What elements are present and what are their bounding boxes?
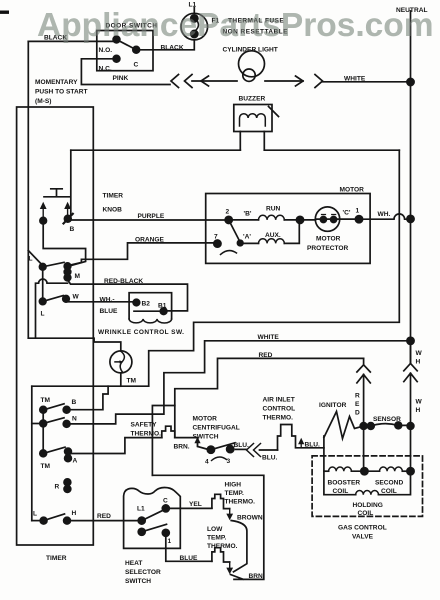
svg-text:7: 7 — [214, 234, 218, 241]
motor terminal 2 — [225, 216, 232, 223]
svg-text:WH.: WH. — [378, 211, 391, 218]
wire rail left drop to push-to-start contact — [68, 150, 71, 218]
run winding — [229, 219, 259, 221]
svg-text:CYLINDER LIGHT: CYLINDER LIGHT — [223, 47, 278, 54]
svg-text:'B': 'B' — [244, 211, 252, 218]
arrow blu — [300, 442, 302, 448]
wire L upper to lower — [42, 267, 44, 302]
wire PINK from N.C. down and right to connector — [81, 59, 170, 85]
svg-text:THERMO.: THERMO. — [263, 415, 294, 422]
svg-text:R: R — [55, 484, 60, 491]
wire RED/WH columns into valve — [364, 426, 411, 471]
wire to L contact — [32, 520, 44, 522]
svg-text:TM: TM — [41, 397, 51, 404]
svg-text:HOLDING: HOLDING — [353, 502, 383, 509]
wire RED staircase — [175, 358, 364, 437]
svg-text:'A': 'A' — [243, 234, 251, 241]
svg-text:SELECTOR: SELECTOR — [125, 569, 161, 576]
thermal fuse F1 — [181, 13, 208, 40]
svg-text:W: W — [416, 350, 423, 357]
svg-text:W: W — [416, 399, 423, 406]
wire left vertical black down to timer area — [27, 41, 29, 338]
connector RED lower arrow — [357, 375, 370, 427]
wire ORANGE to motor terminal 7 — [69, 243, 218, 266]
thermostat TM circle — [110, 351, 132, 373]
svg-text:H: H — [72, 510, 77, 517]
wire BLU row: centrifugal to valve — [236, 448, 247, 450]
wire knob-L down to L-M contact — [43, 221, 85, 266]
wire TM bottom to rail — [120, 373, 122, 386]
svg-text:COIL: COIL — [381, 488, 397, 495]
wire rail y386 — [32, 385, 149, 387]
svg-text:TM: TM — [127, 378, 137, 385]
svg-text:WH.-: WH.- — [100, 297, 115, 304]
svg-text:A: A — [73, 458, 78, 465]
contact W — [63, 296, 70, 303]
motor box — [206, 194, 370, 264]
svg-text:ORANGE: ORANGE — [135, 237, 165, 244]
wire C to fuse riser — [136, 40, 194, 50]
svg-text:BLUE: BLUE — [180, 555, 199, 562]
svg-text:THERMO.: THERMO. — [131, 431, 162, 438]
wire ignitor-valve riser — [323, 436, 325, 471]
svg-text:AUX.: AUX. — [265, 232, 281, 239]
wire N to WHITE staircase — [67, 341, 411, 424]
svg-text:TEMP.: TEMP. — [225, 490, 244, 497]
svg-text:COIL: COIL — [358, 510, 374, 517]
svg-text:L: L — [41, 311, 45, 318]
booster coil — [324, 470, 329, 472]
door switch DS — [97, 31, 153, 71]
timer contact L-H — [40, 517, 47, 524]
svg-text:IGNITOR: IGNITOR — [319, 402, 347, 409]
cam arc under blade — [221, 251, 237, 255]
svg-text:BRN.: BRN. — [249, 573, 265, 580]
heat selector switch HS — [124, 488, 181, 549]
svg-text:MOMENTARY: MOMENTARY — [35, 79, 78, 86]
svg-text:CONTROL: CONTROL — [263, 406, 296, 413]
svg-text:4: 4 — [205, 459, 209, 466]
wire YEL to high temp thermostat — [166, 507, 212, 509]
svg-text:BROWN: BROWN — [237, 515, 263, 522]
edge artifact top-left — [0, 11, 9, 14]
svg-text:AIR INLET: AIR INLET — [263, 397, 295, 404]
svg-text:H: H — [416, 407, 421, 414]
connector chevron right — [315, 75, 323, 88]
svg-text:BRN.: BRN. — [174, 444, 190, 451]
wire B to power rail — [67, 386, 109, 410]
svg-text:VALVE: VALVE — [352, 534, 374, 541]
holding coil — [324, 471, 356, 495]
svg-text:WHITE: WHITE — [344, 76, 366, 83]
buzzer BZ — [234, 105, 279, 132]
wire high-temp feed — [152, 475, 263, 579]
svg-text:C: C — [163, 498, 168, 505]
svg-text:(M-S): (M-S) — [35, 98, 51, 105]
svg-text:SAFETY: SAFETY — [131, 422, 158, 429]
svg-text:BLUE: BLUE — [100, 308, 119, 315]
wrinkle control switch WCS — [129, 293, 172, 323]
wire rail down right side — [149, 150, 400, 386]
contact knob-B — [64, 215, 71, 222]
svg-text:PURPLE: PURPLE — [138, 213, 165, 220]
svg-text:B: B — [70, 226, 75, 233]
svg-text:C: C — [134, 62, 139, 69]
gas control valve dashed box — [312, 456, 422, 517]
wire WHITE to neutral — [323, 81, 411, 83]
svg-text:N.O.: N.O. — [99, 47, 113, 54]
svg-text:THERMO.: THERMO. — [207, 543, 238, 550]
aux winding — [240, 242, 258, 244]
second coil — [380, 467, 403, 471]
svg-text:PROTECTOR: PROTECTOR — [307, 245, 349, 252]
svg-text:HEAT: HEAT — [125, 560, 142, 567]
svg-text:TEMP.: TEMP. — [207, 535, 226, 542]
motor centrifugal switch contacts — [207, 446, 214, 453]
svg-text:RUN: RUN — [266, 206, 281, 213]
contact L lower — [39, 298, 46, 305]
connector WH lower arrow — [404, 373, 417, 426]
svg-text:BLU.: BLU. — [234, 442, 250, 449]
terminal R — [64, 479, 71, 486]
svg-text:N: N — [72, 416, 77, 423]
wire RED-BLACK M to B1 — [68, 280, 188, 311]
connector chevrons pink-white — [171, 75, 192, 88]
push-to-start knob symbol — [40, 189, 71, 219]
timer contact TM-A — [40, 450, 47, 457]
svg-text:RED: RED — [97, 513, 111, 520]
wire branch to TM2 — [32, 423, 43, 425]
svg-text:GAS CONTROL: GAS CONTROL — [338, 525, 387, 532]
svg-text:B1: B1 — [158, 303, 167, 310]
svg-text:HIGH: HIGH — [225, 482, 242, 489]
svg-text:H: H — [416, 359, 421, 366]
svg-text:PINK: PINK — [113, 75, 129, 82]
svg-text:L: L — [29, 256, 33, 263]
connector chevrons blu — [247, 444, 261, 457]
wire NEUTRAL vertical — [410, 11, 412, 363]
wire BLUE to low temp thermostat — [166, 533, 212, 562]
svg-text:L: L — [33, 511, 37, 518]
svg-text:YEL: YEL — [189, 501, 202, 508]
wire M hop left — [36, 279, 68, 338]
svg-text:TM: TM — [41, 463, 51, 470]
svg-text:E: E — [355, 401, 360, 408]
wire WHITE label junction node — [407, 337, 414, 344]
svg-text:WHITE: WHITE — [258, 334, 280, 341]
motor terminal 1 C — [355, 216, 362, 223]
wire arrowed segment right of light — [265, 80, 303, 82]
wire power rail y150 right segment — [264, 149, 399, 151]
svg-text:MOTOR: MOTOR — [316, 236, 341, 243]
timer box outline — [17, 107, 94, 545]
svg-text:2: 2 — [226, 209, 230, 216]
low temp arrow contact — [229, 562, 231, 569]
svg-text:CENTRIFUGAL: CENTRIFUGAL — [193, 425, 240, 432]
svg-text:SWITCH: SWITCH — [125, 578, 151, 585]
svg-text:RED: RED — [259, 352, 273, 359]
cylinder light LT — [239, 51, 265, 82]
svg-text:SECOND: SECOND — [375, 480, 403, 487]
svg-text:3: 3 — [227, 458, 231, 465]
node — [407, 215, 414, 222]
wire white arrowed segment under cylinder light — [192, 80, 237, 82]
svg-text:KNOB: KNOB — [103, 207, 123, 214]
wire BLACK from left to door switch N.O. — [28, 40, 114, 42]
centrifugal blade 2-A — [229, 220, 241, 242]
svg-text:THERMO.: THERMO. — [225, 499, 256, 506]
svg-text:M: M — [75, 273, 81, 280]
safety thermostat bump — [162, 426, 175, 437]
sensor SR — [360, 423, 367, 430]
svg-text:SWITCH: SWITCH — [193, 434, 219, 441]
svg-text:TIMER: TIMER — [46, 555, 67, 562]
svg-text:TIMER: TIMER — [103, 193, 124, 200]
wire rail left vertical to timer contacts — [31, 386, 33, 520]
svg-text:MOTOR: MOTOR — [340, 187, 365, 194]
contact L upper — [39, 264, 46, 271]
svg-text:BLU.: BLU. — [305, 442, 321, 449]
wire RED timer H to heat selector — [67, 520, 142, 522]
motor terminal 7 — [214, 240, 221, 247]
svg-text:B: B — [72, 399, 77, 406]
svg-text:BLACK: BLACK — [161, 45, 184, 52]
wire y338 to timer thermostat — [28, 338, 121, 351]
terminal L1 stub — [193, 8, 195, 14]
node neutral-white junction — [407, 78, 414, 85]
svg-text:R: R — [355, 393, 360, 400]
wire WH to neutral with hop — [359, 214, 411, 219]
svg-text:SENSOR: SENSOR — [373, 416, 401, 423]
high temp arrow contact — [229, 509, 231, 515]
svg-text:L1: L1 — [137, 506, 145, 513]
svg-text:LOW: LOW — [207, 526, 223, 533]
high temp thermostat bump — [212, 494, 230, 508]
svg-text:RED-BLACK: RED-BLACK — [104, 278, 143, 285]
wire power rail y150 left segment — [71, 149, 241, 151]
timer contact N — [40, 420, 47, 427]
svg-text:BUZZER: BUZZER — [239, 96, 266, 103]
svg-text:'C': 'C' — [343, 210, 351, 217]
wire A to safety thermostat — [68, 438, 162, 454]
svg-text:B2: B2 — [142, 301, 151, 308]
svg-text:1: 1 — [356, 208, 360, 215]
connector WH upper chevron — [404, 341, 417, 371]
node M stack — [64, 263, 71, 270]
connector RED chevron — [357, 358, 370, 372]
svg-text:BOOSTER: BOOSTER — [328, 480, 361, 487]
svg-text:N.C.: N.C. — [99, 66, 112, 73]
low temp thermostat bump — [212, 548, 230, 562]
node run-aux junction — [296, 216, 303, 223]
wire buzzer legs — [240, 132, 264, 151]
ignitor IG — [324, 412, 364, 439]
wire branch to high-low thermostats — [152, 406, 174, 476]
watermark — [37, 7, 434, 45]
wire W to wrinkle B2 — [66, 301, 136, 303]
svg-text:1: 1 — [168, 538, 172, 545]
svg-text:COIL: COIL — [333, 488, 349, 495]
timer contact TM-B — [40, 406, 47, 413]
motor protector MP — [315, 207, 339, 231]
node booster-second — [361, 468, 368, 475]
svg-text:WRINKLE CONTROL SW.: WRINKLE CONTROL SW. — [98, 329, 184, 336]
svg-text:PUSH TO START: PUSH TO START — [35, 89, 88, 96]
wire low temp output blade — [231, 575, 244, 580]
wire PURPLE to motor terminal 2 — [68, 219, 229, 221]
svg-text:D: D — [355, 410, 360, 417]
air inlet control thermostat — [278, 425, 324, 451]
wire high temp output — [231, 521, 247, 572]
node second-right — [407, 468, 414, 475]
svg-text:BLU.: BLU. — [262, 455, 278, 462]
svg-text:W: W — [73, 294, 80, 301]
wire diagonal to contact L of L-M switch — [28, 251, 42, 266]
contact knob-L — [40, 217, 47, 224]
svg-text:MOTOR: MOTOR — [193, 416, 218, 423]
wire safety thermo to contact 4 — [175, 438, 208, 450]
arrow brn — [197, 441, 199, 447]
